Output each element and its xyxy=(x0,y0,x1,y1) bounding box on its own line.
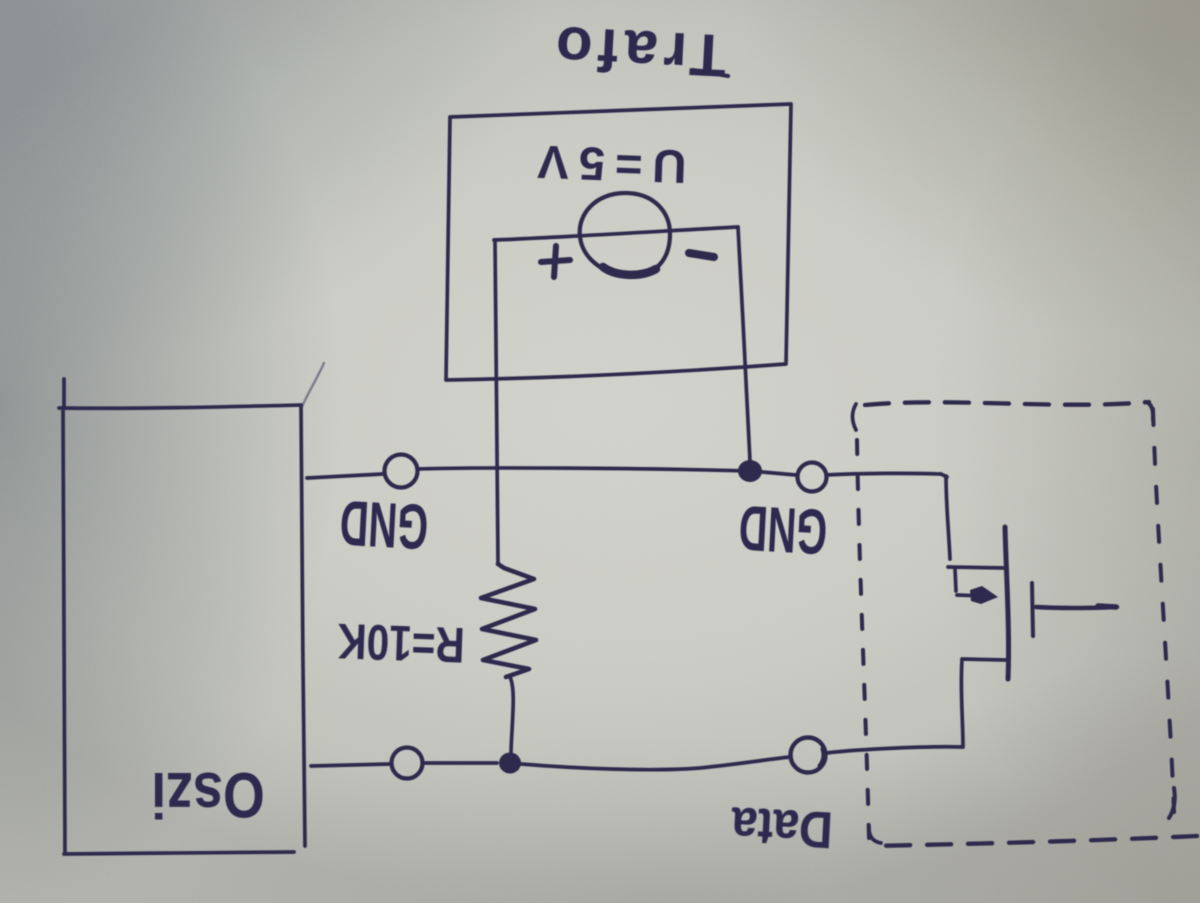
dashed module box top-left corner dash xyxy=(853,404,857,430)
svg-text:Oszi: Oszi xyxy=(151,759,265,832)
wire: GND junction to right terminal xyxy=(762,472,796,475)
label Oszi xyxy=(151,759,265,832)
label U=5V xyxy=(527,135,688,194)
wire: GND net terminal to junction xyxy=(419,468,748,471)
svg-text:R=10K: R=10K xyxy=(336,613,465,673)
Trafo underline xyxy=(693,70,728,76)
terminal circle GND left xyxy=(385,455,418,488)
faint pen drag at Oszi corner xyxy=(302,363,324,407)
wire: Data into dashed module xyxy=(826,747,962,753)
minus sign xyxy=(689,253,714,257)
dashed module box top edge xyxy=(865,402,1149,405)
dashed module box bottom-left corner xyxy=(869,828,881,843)
svg-text:U=5V: U=5V xyxy=(527,135,688,194)
label R=10K xyxy=(336,613,465,673)
MOSFET source vertical xyxy=(961,660,963,747)
dashed module box bottom-right corner dash xyxy=(1169,788,1175,818)
wire: GND net Oszi to terminal xyxy=(307,474,383,478)
dashed module box top-right corner dash xyxy=(1145,402,1153,420)
MOSFET gate bar xyxy=(1032,583,1033,636)
MOSFET source horizontal xyxy=(962,659,1005,660)
wire: terminal to junction xyxy=(423,761,497,765)
dashed module box left edge xyxy=(857,440,869,838)
wire: Data net Oszi to terminal xyxy=(311,764,390,766)
wire: left inner vertical (source + down to resistor) xyxy=(495,240,498,564)
svg-text:GND: GND xyxy=(338,486,430,561)
terminal circle lower left xyxy=(392,748,423,779)
MOSFET bulk step xyxy=(955,569,956,591)
label GND left xyxy=(338,486,430,561)
MOSFET bulk arrowhead xyxy=(970,586,998,604)
voltage source bottom blob xyxy=(603,267,656,275)
MOSFET bulk arrow line xyxy=(957,595,983,596)
svg-text:Trafo: Trafo xyxy=(548,13,728,89)
oscilloscope box (Oszi) xyxy=(59,379,305,854)
voltage source V1 circle xyxy=(580,193,670,276)
resistor R1 zigzag xyxy=(481,564,536,677)
transformer box (Trafo) xyxy=(446,104,791,380)
MOSFET gate wire xyxy=(1036,607,1117,608)
label Trafo xyxy=(548,13,728,89)
MOSFET Q1 drain lead hook xyxy=(941,474,947,477)
terminal circle Data xyxy=(791,738,826,773)
MOSFET channel bar xyxy=(1005,527,1009,679)
junction dot on Data wire xyxy=(499,753,521,774)
wire: GND into dashed module xyxy=(827,473,941,475)
wire: resistor bottom lead xyxy=(510,677,513,752)
terminal circle Data inner accent xyxy=(820,749,824,766)
label GND right xyxy=(737,491,829,566)
label Data xyxy=(729,796,834,859)
MOSFET drain horizontal xyxy=(948,567,1005,568)
plus sign xyxy=(541,246,570,277)
dashed module box bottom edge xyxy=(872,836,1197,846)
junction dot on GND wire xyxy=(738,460,762,482)
wire: right inner vertical (source - down to GND junction) xyxy=(738,227,750,461)
wire: Data junction to Data terminal xyxy=(521,757,790,770)
MOSFET gate wire end accent xyxy=(1098,606,1116,607)
MOSFET drain vertical xyxy=(946,476,950,559)
dashed module box right edge xyxy=(1153,409,1174,812)
svg-text:Data: Data xyxy=(729,796,834,859)
terminal circle GND right xyxy=(798,463,827,492)
wire: through source horizontal xyxy=(494,227,738,240)
svg-text:GND: GND xyxy=(737,491,829,566)
